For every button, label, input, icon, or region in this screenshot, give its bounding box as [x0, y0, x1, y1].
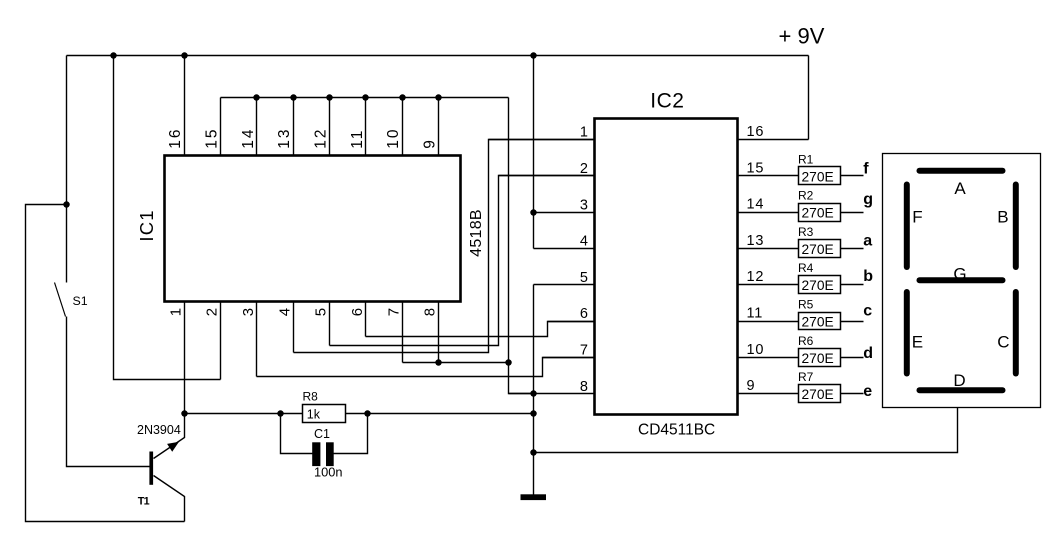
IC1 pin 7 — [385, 302, 402, 363]
svg-text:IC1: IC1 — [136, 209, 157, 241]
svg-text:4: 4 — [580, 234, 588, 250]
svg-text:270E: 270E — [802, 351, 834, 366]
wire IC1 pin3 to IC2 pin7 — [257, 358, 595, 377]
junction bus — [435, 94, 442, 101]
junction bus — [362, 94, 369, 101]
svg-text:G: G — [953, 264, 966, 283]
svg-text:6: 6 — [580, 306, 588, 322]
svg-text:10: 10 — [747, 342, 765, 358]
junction ground / clock rail — [530, 410, 537, 417]
svg-text:b: b — [863, 268, 873, 285]
svg-text:270E: 270E — [802, 169, 834, 184]
wire IC1 pin5 to IC2 pin2 — [330, 176, 595, 346]
svg-text:R2: R2 — [798, 189, 814, 203]
wire S1 node to far-left loop — [26, 205, 185, 522]
IC1 pin 11 — [349, 98, 366, 156]
IC1 pin 15 — [204, 98, 221, 156]
svg-text:11: 11 — [747, 306, 764, 322]
svg-text:R4: R4 — [798, 261, 814, 275]
svg-text:8: 8 — [422, 308, 439, 316]
svg-text:C: C — [997, 333, 1009, 352]
svg-text:R8: R8 — [303, 390, 319, 404]
junction bus — [253, 94, 260, 101]
svg-text:9: 9 — [747, 378, 755, 394]
IC2 pin 6 — [548, 306, 595, 322]
svg-text:14: 14 — [240, 127, 257, 148]
svg-text:C1: C1 — [314, 427, 330, 441]
IC1 pin 3 — [240, 302, 257, 377]
svg-text:CD4511BC: CD4511BC — [638, 422, 715, 439]
svg-text:B: B — [997, 207, 1008, 226]
IC2 pin 11 — [738, 306, 799, 322]
wire IC1 pin4 to IC2 pin1 — [294, 140, 595, 353]
junction rail / IC1 pin1 / T1 collector — [181, 410, 188, 417]
svg-text:2: 2 — [580, 161, 588, 177]
svg-text:8: 8 — [580, 379, 588, 395]
IC1 4518B body — [165, 156, 461, 302]
svg-text:1: 1 — [167, 308, 184, 316]
svg-text:f: f — [863, 160, 869, 177]
junction bus — [290, 94, 297, 101]
IC1 pin 13 — [276, 98, 293, 156]
svg-text:12: 12 — [313, 127, 330, 148]
svg-text:13: 13 — [747, 233, 765, 249]
IC2 pin 16 — [738, 124, 809, 140]
junction bus — [399, 94, 406, 101]
svg-text:270E: 270E — [802, 387, 834, 402]
display segment E bar — [904, 292, 910, 374]
display segment B bar — [1013, 185, 1019, 268]
svg-text:T1: T1 — [138, 496, 150, 508]
svg-text:14: 14 — [747, 197, 765, 213]
resistor R3 — [798, 225, 841, 258]
svg-text:a: a — [863, 232, 872, 249]
svg-text:7: 7 — [385, 308, 402, 316]
svg-text:E: E — [912, 333, 923, 352]
svg-text:D: D — [953, 371, 965, 390]
IC2 pin 7 — [543, 343, 595, 359]
display segment G bar — [920, 277, 1003, 283]
junction IC2 pin8 / ground — [530, 390, 537, 397]
junction IC2 pin3 / +9V branch — [530, 209, 537, 216]
resistor R1 — [798, 152, 841, 184]
wire R6 to segment d — [841, 357, 864, 359]
svg-text:+ 9V: + 9V — [779, 23, 825, 48]
svg-text:IC2: IC2 — [650, 90, 684, 113]
display body — [883, 154, 1041, 408]
svg-text:F: F — [912, 207, 922, 226]
capacitor C1 plates — [312, 442, 320, 466]
svg-text:100n: 100n — [314, 465, 342, 480]
IC2 pin 15 — [738, 160, 799, 176]
svg-text:7: 7 — [580, 343, 588, 359]
switch S1 lever — [55, 283, 66, 317]
svg-text:15: 15 — [747, 160, 765, 176]
svg-text:13: 13 — [276, 127, 293, 148]
junction S1 top node — [63, 201, 70, 208]
svg-text:16: 16 — [747, 124, 765, 140]
junction ground link / bus drop — [505, 359, 512, 366]
svg-text:g: g — [863, 191, 873, 208]
transistor T1 emitter lead — [154, 476, 185, 522]
IC2 pin 14 — [738, 197, 799, 213]
svg-text:10: 10 — [385, 127, 402, 148]
svg-text:12: 12 — [747, 269, 765, 285]
wire clock rail right — [346, 413, 534, 415]
resistor R4 — [798, 261, 841, 293]
IC2 pin 12 — [738, 269, 799, 285]
IC1 pin 5 — [313, 302, 330, 346]
IC2 pin 2 — [499, 161, 595, 177]
display segment C bar — [1013, 292, 1019, 374]
svg-text:d: d — [863, 345, 873, 362]
wire +9V top rail — [67, 55, 809, 57]
svg-text:R3: R3 — [798, 225, 814, 239]
svg-text:270E: 270E — [802, 242, 834, 257]
junction IC1 pin8 / ground link — [435, 359, 442, 366]
wire +9V right drop — [808, 56, 810, 140]
wire S1 node down to switch — [66, 205, 68, 283]
junction +9V / S1 branch — [110, 52, 117, 59]
IC2 pin 3 — [534, 197, 595, 213]
IC2 pin 8 — [509, 379, 595, 395]
IC1 pin 12 — [313, 98, 330, 156]
junction +9V / IC2 LT-BI branch — [530, 52, 537, 59]
svg-text:15: 15 — [204, 127, 221, 148]
svg-text:R5: R5 — [798, 298, 814, 312]
wire clock rail left — [185, 413, 303, 415]
ground symbol — [521, 494, 547, 500]
wire S1 bottom terminal to T1 base — [67, 317, 150, 467]
svg-text:e: e — [863, 383, 872, 400]
wire bus down to ground — [509, 98, 534, 394]
wire IC1 reset/clock bus — [221, 97, 509, 99]
IC2 pin 10 — [738, 342, 799, 358]
resistor R5 — [798, 298, 841, 330]
IC2 pin 1 — [489, 125, 595, 141]
junction rail / C1 left — [277, 410, 284, 417]
IC1 pin 1 — [167, 302, 184, 414]
svg-text:16: 16 — [167, 127, 184, 148]
svg-text:R7: R7 — [798, 370, 814, 384]
IC1 pin 6 — [349, 302, 366, 337]
wire R4 to segment b — [841, 284, 864, 286]
display segment A bar — [920, 168, 1003, 174]
wire R5 to segment c — [841, 321, 864, 323]
svg-text:270E: 270E — [802, 206, 834, 221]
wire +9V to IC2 pins 3-4 — [533, 56, 535, 249]
svg-text:2N3904: 2N3904 — [137, 423, 181, 437]
wire R7 to segment e — [841, 393, 864, 395]
svg-text:11: 11 — [349, 129, 366, 149]
wire IC1 pin6 to IC2 pin6 — [366, 322, 595, 337]
capacitor C1 left leg — [281, 414, 313, 454]
svg-text:3: 3 — [240, 308, 257, 316]
IC1 pin 2 — [204, 302, 221, 380]
IC2 pin 13 — [738, 233, 799, 249]
wire +9V left drop to S1 node — [66, 56, 68, 205]
resistor R6 — [798, 334, 841, 367]
IC2 CD4511BC body — [595, 119, 738, 415]
svg-text:270E: 270E — [802, 315, 834, 330]
IC2 pin 4 — [534, 234, 595, 250]
transistor T1 base bar — [149, 452, 153, 485]
svg-text:270E: 270E — [802, 278, 834, 293]
resistor R7 — [798, 370, 841, 402]
IC1 pin 4 — [276, 302, 293, 353]
wire IC1 pin7-pin8 ground link — [403, 362, 509, 364]
wire IC2 pin5 to ground — [533, 285, 535, 394]
svg-text:R1: R1 — [798, 152, 814, 166]
IC1 pin 14 — [240, 98, 257, 156]
svg-text:R6: R6 — [798, 334, 814, 348]
resistor R8 — [303, 390, 346, 423]
svg-text:A: A — [954, 179, 966, 198]
svg-text:4: 4 — [276, 308, 293, 316]
svg-text:4518B: 4518B — [468, 209, 485, 257]
svg-text:1: 1 — [580, 125, 588, 141]
wire ground trunk — [533, 394, 535, 495]
junction bus — [326, 94, 333, 101]
wire IC1 pin2 to +9V — [114, 56, 221, 380]
svg-text:c: c — [863, 302, 872, 319]
junction ground / display return — [530, 449, 537, 456]
svg-text:3: 3 — [580, 197, 588, 213]
IC1 pin 10 — [385, 98, 402, 156]
IC1 pin 8 — [422, 302, 439, 363]
wire R3 to segment a — [841, 248, 864, 250]
junction +9V / IC1 pin16 — [181, 52, 188, 59]
transistor T1 collector lead — [154, 414, 185, 459]
svg-text:6: 6 — [349, 308, 366, 316]
display segment D bar — [920, 387, 1003, 393]
IC1 pin 9 — [422, 98, 439, 156]
junction rail / C1 right — [364, 410, 371, 417]
IC2 pin 9 — [738, 378, 799, 394]
svg-text:9: 9 — [422, 140, 439, 149]
wire R2 to segment g — [841, 212, 864, 214]
svg-text:S1: S1 — [73, 294, 88, 308]
wire R1 to segment f — [841, 175, 864, 177]
transistor T1 emitter arrow — [167, 442, 179, 452]
svg-text:5: 5 — [580, 270, 588, 286]
IC1 pin 16 — [167, 56, 184, 156]
wire display common to ground — [534, 408, 958, 453]
capacitor C1 right leg — [334, 414, 368, 454]
svg-text:5: 5 — [313, 308, 330, 316]
resistor R2 — [798, 189, 841, 222]
svg-text:1k: 1k — [307, 408, 321, 422]
IC2 pin 5 — [534, 270, 595, 286]
svg-text:2: 2 — [204, 308, 221, 316]
display segment F bar — [904, 185, 910, 268]
